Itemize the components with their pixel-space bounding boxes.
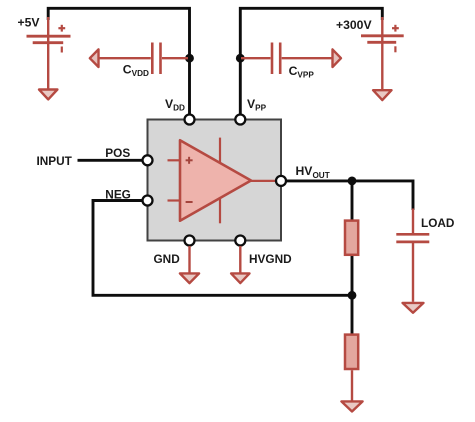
node junction HVOUT-divider <box>348 177 357 186</box>
pin HVOUT <box>276 176 286 186</box>
arrowhead CVPP <box>333 49 342 67</box>
pin HVGND <box>235 236 245 246</box>
resistor R1 <box>345 221 358 255</box>
pin POS <box>143 155 153 165</box>
svg-text:VPP: VPP <box>247 97 267 113</box>
svg-text:INPUT: INPUT <box>37 154 73 168</box>
pin VPP <box>235 115 245 125</box>
node junction feedback <box>348 291 357 300</box>
pin NEG <box>143 196 153 206</box>
svg-text:HVOUT: HVOUT <box>296 164 330 180</box>
wire top-right rail <box>240 8 382 119</box>
svg-text:+5V: +5V <box>18 16 41 30</box>
battery V2 +300V <box>361 17 404 89</box>
op-amp U1 triangle <box>180 140 251 220</box>
svg-text:VDD: VDD <box>165 97 185 113</box>
capacitor LOAD <box>396 209 429 302</box>
svg-text:HVGND: HVGND <box>249 252 292 266</box>
svg-text:CVPP: CVPP <box>289 64 315 80</box>
battery V1 +5V <box>27 17 71 89</box>
ground HVGND arrow <box>239 246 241 274</box>
wire HV_OUT to load corner <box>281 181 413 210</box>
svg-text:+300V: +300V <box>336 18 372 32</box>
op-amp input stub - <box>168 199 182 201</box>
svg-text:LOAD: LOAD <box>421 216 455 230</box>
op-amp power stub top <box>219 138 221 163</box>
ground of R2 <box>341 401 362 411</box>
ground of V1 <box>39 90 57 100</box>
node junction CVPP <box>236 54 245 63</box>
svg-text:CVDD: CVDD <box>123 63 149 79</box>
capacitor CVDD <box>99 43 188 75</box>
wire NEG feedback <box>93 201 352 296</box>
op-amp plus sign <box>186 157 193 164</box>
op-amp minus sign <box>186 201 193 203</box>
arrowhead CVDD <box>90 49 99 67</box>
wire between resistors <box>351 256 354 335</box>
op-amp input stub + <box>168 159 182 161</box>
IC body U1 <box>148 120 282 241</box>
ground GND arrow <box>188 246 190 274</box>
wire R2 to ground <box>351 370 353 400</box>
svg-text:POS: POS <box>105 146 130 160</box>
node junction CVDD <box>185 54 194 63</box>
svg-text:GND: GND <box>154 252 181 266</box>
wire INPUT to POS <box>78 159 148 162</box>
pin VDD <box>185 115 195 125</box>
wire top-left rail <box>48 8 189 119</box>
op-amp output stub <box>249 180 278 182</box>
ground of LOAD <box>403 303 424 313</box>
capacitor CVPP <box>241 43 332 75</box>
ground of V2 <box>373 90 391 100</box>
pin GND <box>185 236 195 246</box>
svg-text:NEG: NEG <box>105 188 131 202</box>
wire divider chain <box>351 181 354 220</box>
resistor R2 <box>345 335 358 369</box>
op-amp power stub bottom <box>219 199 221 224</box>
